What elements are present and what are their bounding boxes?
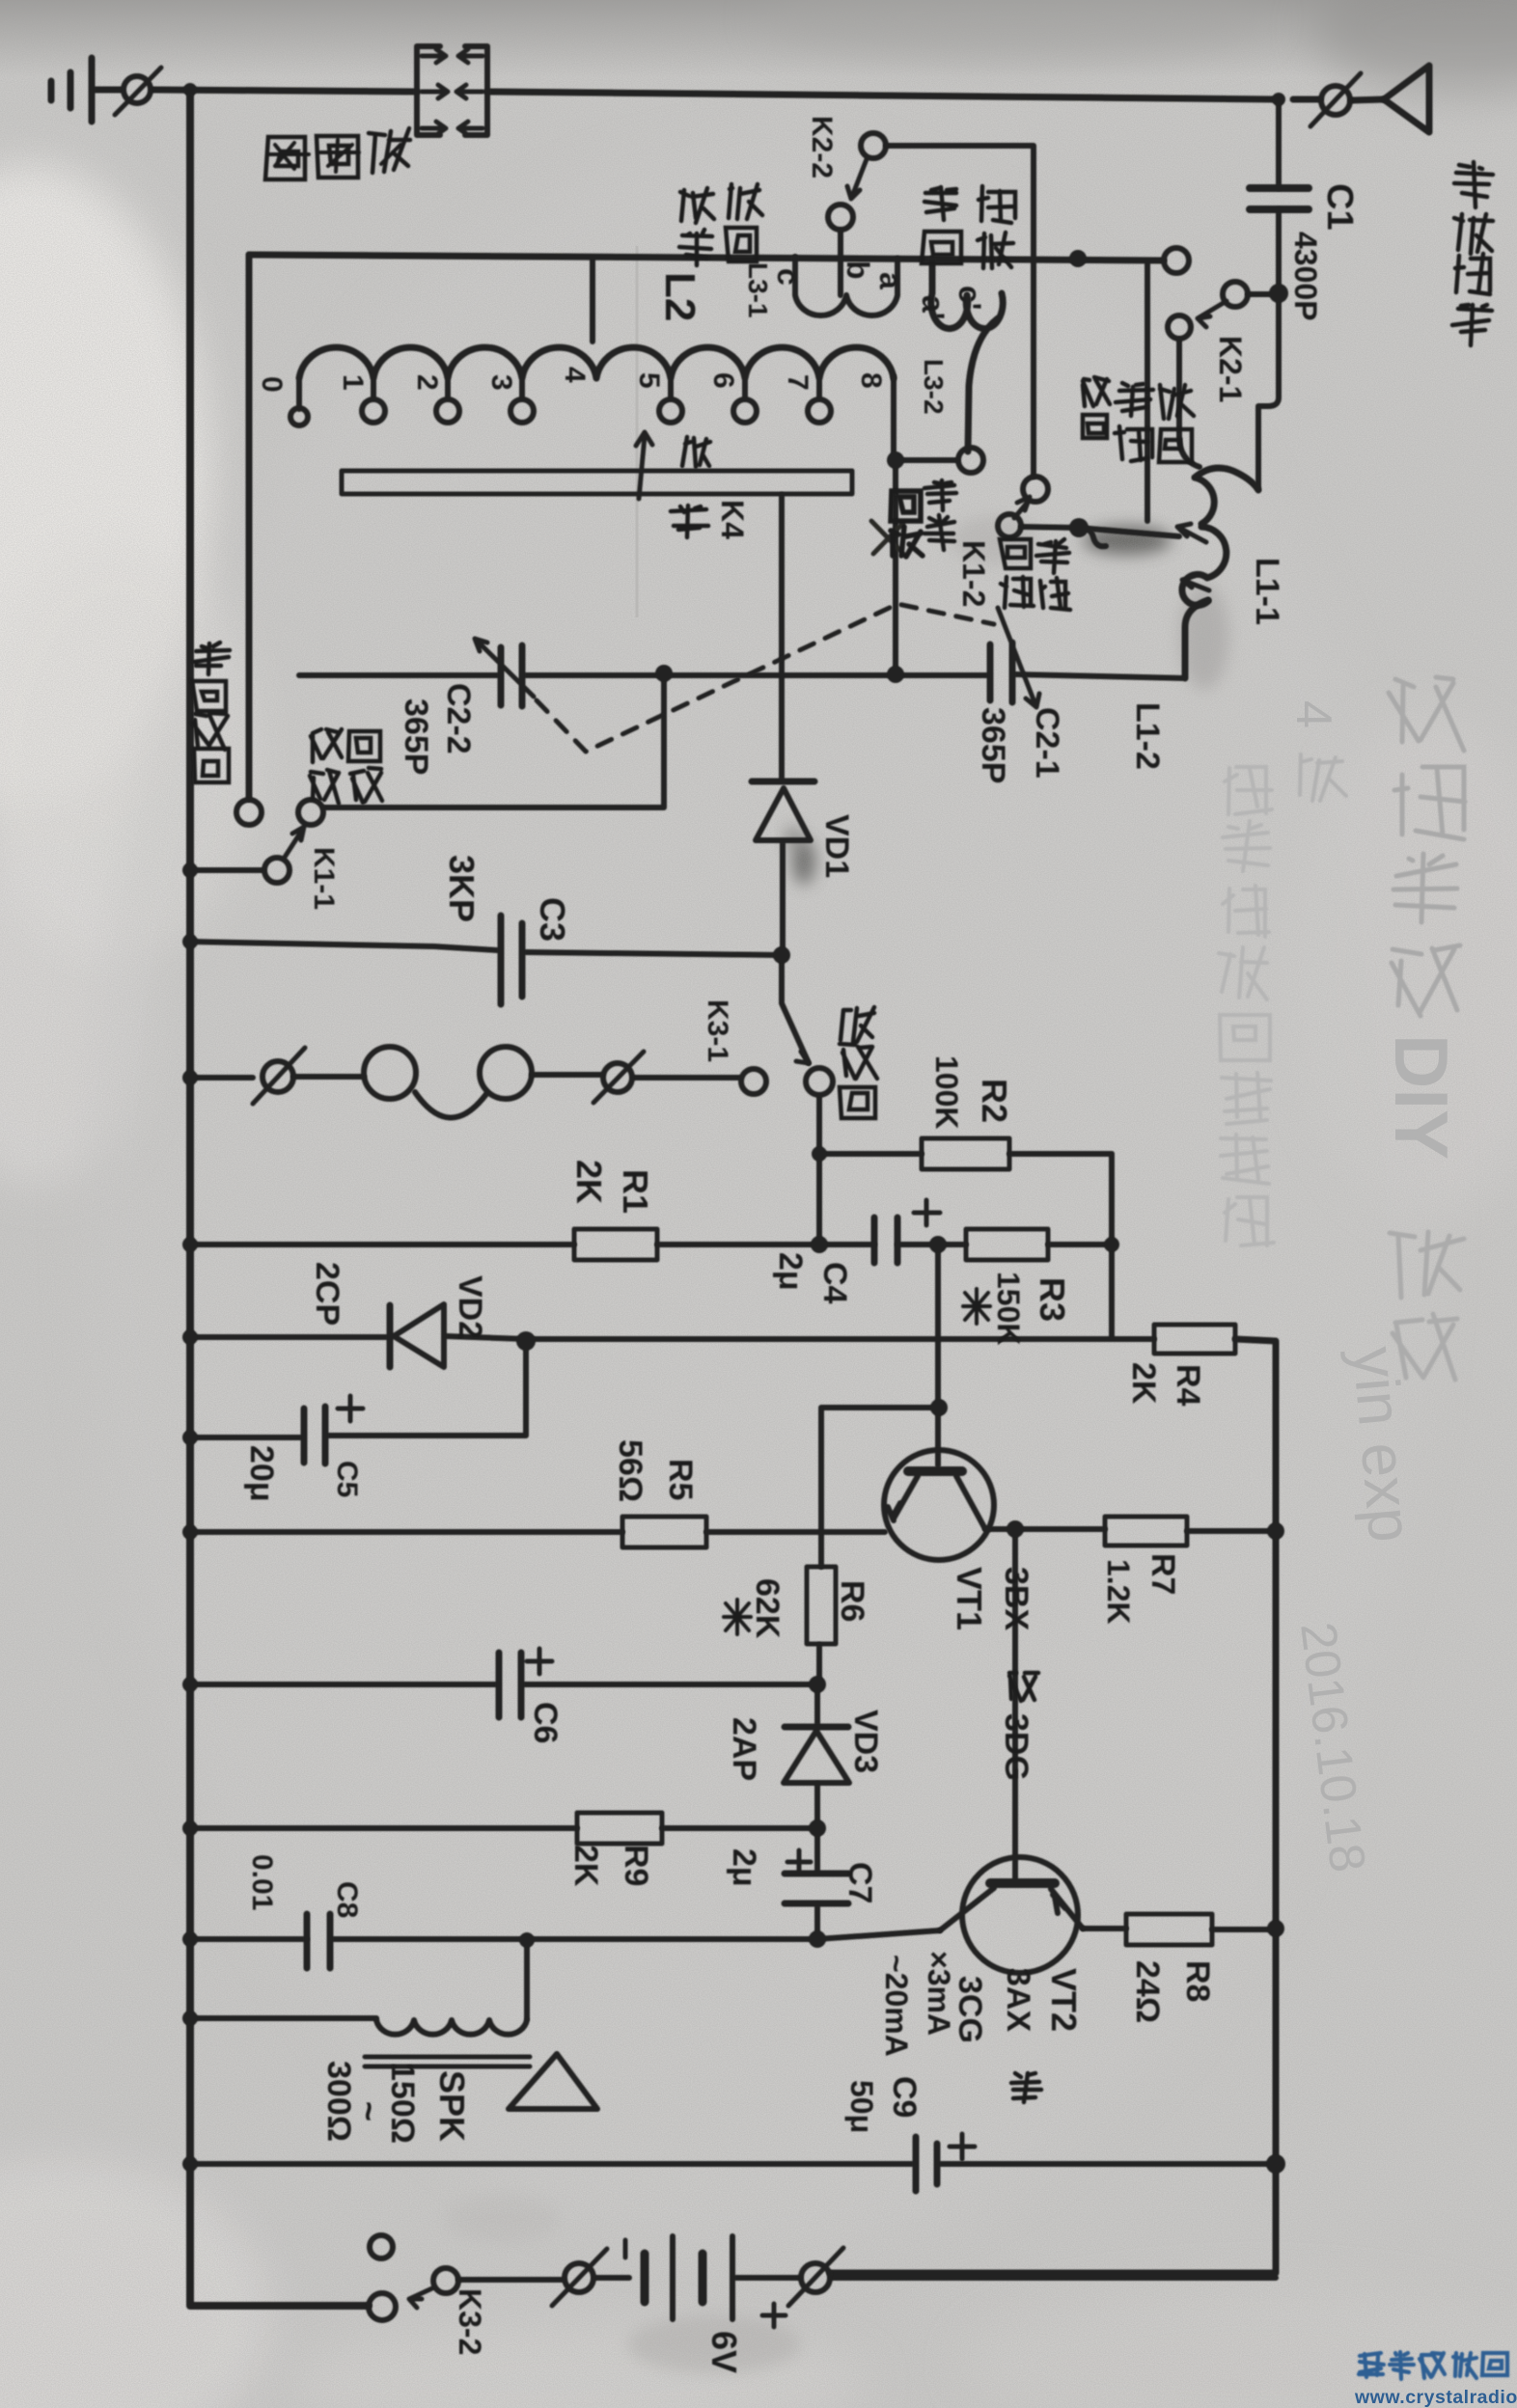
svg-text:2K: 2K — [567, 1845, 604, 1887]
svg-text:C2-1: C2-1 — [1029, 707, 1065, 779]
tap 2 — [445, 378, 451, 399]
wire: VD3 verticals — [814, 1684, 820, 1828]
svg-text:C1: C1 — [1319, 183, 1360, 231]
svg-text:4300P: 4300P — [1288, 232, 1323, 321]
capacitor C1 4300P — [1250, 188, 1309, 209]
wire: K2-1 lower contact down to L1-1 curl — [1179, 340, 1200, 467]
svg-text:VT2: VT2 — [1044, 1968, 1084, 2032]
svg-text:K3-1: K3-1 — [702, 999, 733, 1062]
arrow bar to tap5 — [636, 432, 652, 499]
svg-text:2K: 2K — [1125, 1362, 1162, 1405]
ink smudge below VD1 — [792, 838, 815, 885]
stain near battery — [627, 2315, 801, 2373]
battery 6V — [641, 2254, 649, 2302]
svg-text:www.crystalradio.cn: www.crystalradio.cn — [1354, 2387, 1517, 2408]
wire: inner rectangle top rail y=266 — [249, 255, 1164, 260]
svg-text:R6: R6 — [834, 1580, 870, 1622]
switch K2-2 — [861, 133, 886, 158]
wire: K2-2 lower contact down to L3-1 tap b — [838, 231, 843, 295]
svg-text:6V: 6V — [704, 2331, 744, 2373]
label 陷波 (tap8, messy) — [891, 491, 923, 557]
ground — [51, 58, 92, 122]
svg-text:0.01: 0.01 — [246, 1854, 278, 1910]
svg-text:56Ω: 56Ω — [612, 1439, 648, 1502]
svg-text:C4: C4 — [816, 1262, 853, 1304]
svg-text:2μ: 2μ — [726, 1848, 762, 1887]
wire: top horizontal bus (ground to antenna) — [94, 90, 1384, 100]
switch K1-1 — [236, 800, 262, 825]
speaker horn — [509, 2054, 597, 2109]
svg-text:2: 2 — [411, 374, 443, 391]
watermark 矿石收音机 — [1359, 2352, 1507, 2379]
capacitor C8 0.01 — [307, 1914, 330, 1968]
speaker transformer primary — [376, 2020, 527, 2035]
junction (972,1290) — [929, 1236, 947, 1253]
junction (1118,547) — [1069, 518, 1089, 537]
wire: vertical x=1189 (trap rail) — [1145, 260, 1150, 521]
wire: C1 branch vertical — [1258, 99, 1279, 488]
tap 5 — [668, 378, 674, 399]
capacitor C3 3KP — [501, 916, 522, 1004]
wire: y2243 bus with C9 — [190, 2161, 1276, 2167]
terminal (phone jack left) — [262, 1061, 293, 1092]
lightning arrester — [417, 46, 487, 135]
svg-text:R2: R2 — [975, 1079, 1014, 1123]
label 陷波 (x1198) — [1159, 385, 1194, 462]
coil L3-2 — [931, 259, 1003, 451]
transformer core — [365, 2057, 530, 2066]
coil L1-1 — [1079, 528, 1106, 546]
terminal (antenna post) — [1321, 86, 1350, 115]
gang dashed line — [537, 604, 994, 752]
wire: C5 leads — [190, 1343, 526, 1437]
resistor R4 2K — [1154, 1325, 1235, 1354]
label 音放开 (K3-1) — [840, 1007, 877, 1118]
svg-text:R4: R4 — [1170, 1364, 1206, 1407]
wire: K2-2 top contact to K1-2 upper contact — [886, 146, 1034, 477]
svg-text:DIY: DIY — [1379, 1034, 1464, 1160]
svg-text:0: 0 — [256, 376, 288, 393]
capacitor C9 50u — [916, 2137, 937, 2191]
junction (545,1390) — [516, 1331, 536, 1351]
junction (1117,268) — [1069, 250, 1087, 267]
diode VD2 — [387, 1305, 394, 1367]
resistor R3 150K — [966, 1229, 1048, 1260]
note mark near R6 — [724, 1600, 751, 1634]
wire: C4 right lead to base junction — [897, 1242, 966, 1247]
junction (1325,304) — [1269, 284, 1288, 303]
junction (197,1386) — [182, 1329, 198, 1345]
junction (1052,1585) — [1007, 1520, 1024, 1538]
svg-text:1.2K: 1.2K — [1101, 1559, 1136, 1625]
coil L2 (main tuning coil) — [299, 347, 894, 378]
label 避 (arrester) — [369, 128, 410, 173]
wire: y700 rail C2-2 / C2-1 — [299, 674, 1185, 678]
wire: y1588 bus R5 to VT1 emitter — [190, 1529, 885, 1535]
svg-text:a: a — [873, 272, 908, 289]
label 双回 (C2-2) — [348, 731, 382, 803]
pencil 大赛 (title) — [1390, 1232, 1464, 1380]
svg-text:C5: C5 — [331, 1461, 363, 1497]
wire: VT1 collector down to VT2 base — [1012, 1529, 1018, 1879]
pencil 跃进牌矿石收音机 — [1219, 767, 1274, 1245]
svg-text:3BX: 3BX — [998, 1567, 1034, 1630]
junction (546,2011) — [519, 1932, 535, 1948]
junction (197,93) — [183, 83, 197, 96]
svg-text:3KP: 3KP — [442, 855, 482, 922]
variable capacitor C2-2 — [501, 645, 522, 706]
svg-text:C3: C3 — [533, 897, 572, 942]
wire: main left vertical bus — [190, 90, 369, 2306]
wire: K4 frame (junction y700 down to K1-1 fixed) — [324, 675, 664, 807]
svg-text:c': c' — [952, 286, 987, 310]
junction (197,1490) — [182, 1430, 198, 1445]
terminal (battery left) — [565, 2263, 593, 2292]
svg-text:L1-2: L1-2 — [1129, 702, 1166, 770]
label 单回 (tap8) — [924, 480, 956, 550]
wire: R6 bottom lead — [816, 1645, 822, 1684]
svg-text:62K: 62K — [749, 1578, 786, 1639]
resistor R1 2K — [574, 1229, 657, 1260]
wire: y1746 bus C6 — [190, 1682, 816, 1687]
transistor VT1 — [884, 1450, 994, 1560]
wire: R3 right lead — [1048, 1242, 1112, 1247]
faint paper crease — [636, 246, 639, 617]
wire: R2 leads — [819, 1151, 1112, 1157]
svg-text:2μ: 2μ — [772, 1252, 809, 1291]
label 单回 (right edge) — [1452, 254, 1492, 345]
junction (849,1196) — [812, 1146, 827, 1162]
junction (928,699) — [887, 666, 904, 683]
wire: y2010 bus C8 — [190, 1930, 940, 1939]
label 双调 (C2-2) — [310, 729, 342, 804]
transistor VT2 — [962, 1857, 1078, 1973]
label 配 (K4) — [671, 506, 708, 537]
junction (197,2092) — [182, 2011, 198, 2026]
resistor R2 100K — [922, 1138, 1009, 1169]
junction (197,1290) — [182, 1237, 198, 1252]
wire: speaker primary riser — [524, 1941, 530, 2018]
svg-text:a': a' — [916, 295, 951, 319]
svg-text:VD1: VD1 — [818, 814, 855, 878]
svg-text:24Ω: 24Ω — [1129, 1960, 1166, 2023]
resistor R8 24ohm — [1126, 1914, 1212, 1945]
label 陷波单回 (left) — [192, 643, 230, 782]
svg-text:365P: 365P — [975, 707, 1011, 783]
svg-text:C7: C7 — [841, 1862, 878, 1903]
variable capacitor C2-1 — [990, 643, 1012, 702]
label 双调 (x1157) — [1115, 383, 1153, 461]
svg-text:c: c — [771, 268, 806, 286]
diode VD3 — [785, 1724, 848, 1731]
junction (197,1746) — [182, 1677, 198, 1692]
junction (197,902) — [182, 862, 198, 878]
battery minus tick — [623, 2240, 628, 2257]
label 双回 (K1-2) — [1036, 539, 1070, 610]
svg-text:3DG: 3DG — [998, 1713, 1034, 1781]
wire: K2-1 moving contact to C1 junction — [1248, 291, 1279, 297]
pencil 九届矿坛 (title) — [1389, 677, 1465, 1016]
tap 3 — [519, 378, 525, 399]
svg-text:K3-2: K3-2 — [453, 2288, 487, 2355]
switch K3-1 — [741, 1069, 766, 1094]
label 器 (arrester) — [265, 137, 305, 179]
terminal (ground post) — [124, 76, 151, 103]
svg-text:L1-1: L1-1 — [1249, 558, 1285, 625]
switch K3-2 — [369, 2293, 396, 2320]
resistor R7 1.2K — [1105, 1517, 1187, 1546]
terminal (phone jack right) — [603, 1063, 632, 1092]
svg-text:SPK: SPK — [432, 2070, 472, 2142]
wire: C3 left lead — [190, 942, 498, 950]
tap 7 — [816, 378, 822, 399]
svg-text:100K: 100K — [929, 1055, 964, 1130]
resistor R6 62K — [807, 1567, 836, 1644]
pencil 级 (class) — [1300, 754, 1346, 801]
svg-text:2K: 2K — [569, 1160, 609, 1204]
terminal (battery right) — [801, 2263, 830, 2292]
resistor R5 56ohm — [622, 1517, 706, 1547]
wire: C7 verticals — [814, 1828, 820, 1939]
junction (197,1588) — [182, 1524, 198, 1540]
capacitor C4 2u — [874, 1218, 897, 1263]
wire: VT1 base vertical — [935, 1245, 941, 1465]
scribble cross at tap8 trap label — [871, 521, 903, 554]
svg-text:8: 8 — [855, 372, 887, 389]
svg-text:R5: R5 — [662, 1459, 699, 1500]
svg-text:50μ: 50μ — [844, 2080, 879, 2133]
junction (1322,2243) — [1266, 2154, 1285, 2174]
svg-text:b: b — [841, 260, 875, 280]
svg-text:L3-1: L3-1 — [743, 262, 773, 318]
antenna — [1384, 66, 1429, 132]
junction (973,1459) — [930, 1399, 948, 1416]
junction (1322,1587) — [1267, 1522, 1284, 1540]
junction (1322,1999) — [1267, 1920, 1284, 1937]
wire: tap8 junction to single-loop contact — [896, 457, 957, 463]
svg-text:C2-2: C2-2 — [440, 683, 477, 754]
diode VD1 — [752, 779, 814, 785]
svg-text:5: 5 — [633, 372, 665, 389]
svg-text:R3: R3 — [1033, 1277, 1072, 1322]
svg-text:20μ: 20μ — [243, 1445, 280, 1502]
capacitor C6 2u — [499, 1653, 521, 1717]
wire: R1 leads y1290 — [190, 1242, 874, 1247]
label 雷 (arrester) — [317, 136, 358, 178]
svg-text:R8: R8 — [1179, 1960, 1216, 2002]
tap 0 lead — [296, 378, 302, 409]
resistor R9 2K — [577, 1813, 662, 1844]
svg-text:2CP: 2CP — [309, 1262, 345, 1326]
label 陷波 (K2-2) — [679, 188, 714, 265]
wire: left inner vertical x=258 down to K1-1 contact — [246, 255, 253, 799]
wire: tap4 riser — [590, 257, 595, 342]
wire: speaker primary lead y2092 — [190, 2015, 376, 2021]
note mark near R3 — [963, 1289, 990, 1324]
svg-text:K1-1: K1-1 — [308, 847, 340, 910]
wire: battery loop bottom — [458, 2278, 1276, 2280]
wire: VD1 vertical from K4 bar — [782, 495, 783, 955]
label 或 (VT2 type) — [1011, 2073, 1041, 2102]
wire: VT1 collector to R7 — [985, 1529, 1276, 1531]
coil L3-1 — [795, 257, 897, 295]
svg-text:3: 3 — [485, 374, 517, 391]
svg-text:6: 6 — [707, 372, 739, 389]
svg-text:300Ω: 300Ω — [320, 2061, 357, 2142]
wire: y1385 bus with VD2 — [190, 1336, 1154, 1339]
junction (1152,1290) — [1104, 1237, 1119, 1252]
svg-text:VD2: VD2 — [452, 1275, 488, 1339]
tap 1 — [371, 378, 376, 399]
svg-text:C6: C6 — [527, 1702, 564, 1743]
junction (1325,103) — [1272, 93, 1285, 106]
svg-text:R1: R1 — [616, 1169, 655, 1214]
wire: phones line y1117 — [190, 1075, 739, 1078]
wire: tap8 vertical — [894, 376, 896, 672]
wire: R6 top hook to base — [821, 1408, 938, 1567]
wire: VT2 emitter to R8 — [1083, 1929, 1276, 1929]
svg-text:VT1: VT1 — [950, 1567, 989, 1630]
junction (197,2243) — [182, 2156, 198, 2172]
wire: R4 right lead and right rail x=1323 — [830, 1339, 1276, 2273]
L1-1 adjust arrows — [1177, 524, 1206, 542]
wire: K3-1 moving contact down to R2 junction — [816, 1096, 822, 1245]
junction (197,1895) — [182, 1820, 198, 1836]
switch K1-2 — [1023, 477, 1048, 502]
svg-text:2AP: 2AP — [726, 1717, 762, 1781]
svg-text:K2-2: K2-2 — [806, 116, 838, 178]
svg-text:7: 7 — [782, 374, 814, 391]
svg-text:K2-1: K2-1 — [1213, 336, 1248, 402]
svg-text:C8: C8 — [331, 1881, 363, 1918]
junction (197,976) — [182, 934, 198, 949]
wire: headphone band arc — [415, 1092, 486, 1118]
junction (849,1290) — [811, 1236, 828, 1253]
svg-text:4: 4 — [559, 367, 591, 383]
tap 6 — [742, 378, 748, 399]
junction (847,2010) — [809, 1930, 826, 1948]
label 双回 (loop select) — [922, 187, 961, 263]
headphone cups — [364, 1047, 416, 1099]
capacitor C5 20u — [304, 1407, 325, 1464]
wire: C3 right lead to VD1 bottom — [525, 952, 782, 955]
junction (847,1746) — [809, 1676, 826, 1693]
svg-text:×3mA: ×3mA — [922, 1951, 956, 2036]
label 陷波 (trap col x1120) — [1083, 377, 1110, 438]
wire: right vertical x=1152 (R2-R3-R4) — [1109, 1154, 1115, 1339]
svg-text:150K: 150K — [991, 1272, 1026, 1346]
wire: y1895 bus R9 — [190, 1825, 817, 1831]
svg-text:4: 4 — [1285, 700, 1341, 728]
svg-text:C9: C9 — [886, 2076, 923, 2118]
wire: L1-2 corner from L1-1 bottom — [1185, 600, 1208, 678]
junction (810,990) — [773, 946, 790, 964]
svg-text:365P: 365P — [398, 698, 434, 775]
label 单回 (loop select) — [978, 186, 1015, 268]
switch K2-1 — [1164, 248, 1189, 273]
svg-text:VD3: VD3 — [847, 1710, 884, 1773]
svg-text:R7: R7 — [1145, 1553, 1181, 1595]
matching slider bar K4 — [342, 471, 852, 494]
svg-text:R9: R9 — [618, 1845, 654, 1886]
label 匹 (K4) — [682, 437, 710, 467]
label 双调 (K2-2) — [726, 184, 762, 261]
svg-text:K4: K4 — [715, 500, 750, 539]
junction (197,1117) — [182, 1070, 198, 1085]
label 避雷器 extra strokes — [268, 140, 400, 172]
junction (197,2010) — [182, 1931, 198, 1947]
stain near L1-2 corner — [1179, 584, 1229, 690]
svg-text:3AX: 3AX — [1000, 1968, 1036, 2032]
svg-text:1: 1 — [337, 374, 369, 391]
ink smudge right of K1-2 junction — [1083, 526, 1172, 555]
svg-text:L3-2: L3-2 — [919, 359, 949, 415]
svg-text:~20mA: ~20mA — [879, 1955, 914, 2057]
label 双调 (K1-2) — [1000, 539, 1034, 608]
svg-text:K1-2: K1-2 — [956, 540, 991, 607]
capacitor C7 2u — [785, 1874, 848, 1903]
switch K1-2 single-loop contact — [958, 448, 983, 473]
label 或 (VT1 type) — [1009, 1673, 1038, 1701]
wire: K1-1 moving feed — [190, 867, 263, 873]
junction (847,1895) — [809, 1820, 826, 1837]
junction (688,698) — [655, 665, 673, 682]
svg-text:L2: L2 — [656, 272, 703, 321]
wire: K1-2 moving contact to L1-1 — [1021, 527, 1179, 536]
junction (928,477) — [887, 451, 904, 469]
wire: VD1 junction down to K3-1 — [782, 955, 809, 1063]
label 双回 (right edge) — [1454, 162, 1493, 254]
